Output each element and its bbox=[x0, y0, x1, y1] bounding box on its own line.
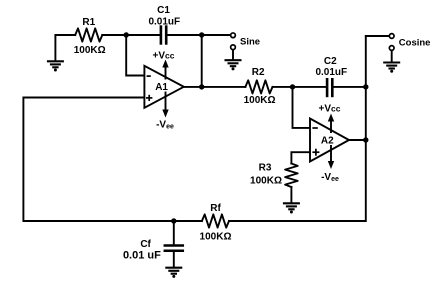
svg-text:A1: A1 bbox=[155, 82, 168, 93]
svg-text:R1: R1 bbox=[82, 17, 95, 28]
svg-text:C2: C2 bbox=[324, 56, 337, 67]
svg-text:A2: A2 bbox=[321, 135, 334, 146]
svg-text:Cosine: Cosine bbox=[399, 37, 431, 48]
svg-text:100KΩ: 100KΩ bbox=[200, 232, 232, 243]
svg-text:Rf: Rf bbox=[210, 203, 221, 214]
svg-text:R3: R3 bbox=[259, 163, 272, 174]
svg-text:-Vee: -Vee bbox=[156, 119, 174, 130]
svg-text:100KΩ: 100KΩ bbox=[244, 95, 276, 106]
svg-text:Sine: Sine bbox=[240, 36, 260, 47]
svg-text:+Vcc: +Vcc bbox=[153, 50, 175, 61]
svg-text:0.01 uF: 0.01 uF bbox=[123, 249, 161, 261]
svg-text:0.01uF: 0.01uF bbox=[148, 16, 180, 27]
svg-text:C1: C1 bbox=[157, 5, 170, 16]
svg-text:R2: R2 bbox=[252, 67, 265, 78]
svg-text:-Vee: -Vee bbox=[321, 172, 339, 183]
svg-text:+Vcc: +Vcc bbox=[319, 103, 341, 114]
svg-text:0.01uF: 0.01uF bbox=[315, 67, 347, 78]
svg-text:100KΩ: 100KΩ bbox=[250, 176, 282, 187]
svg-text:100KΩ: 100KΩ bbox=[74, 45, 106, 56]
